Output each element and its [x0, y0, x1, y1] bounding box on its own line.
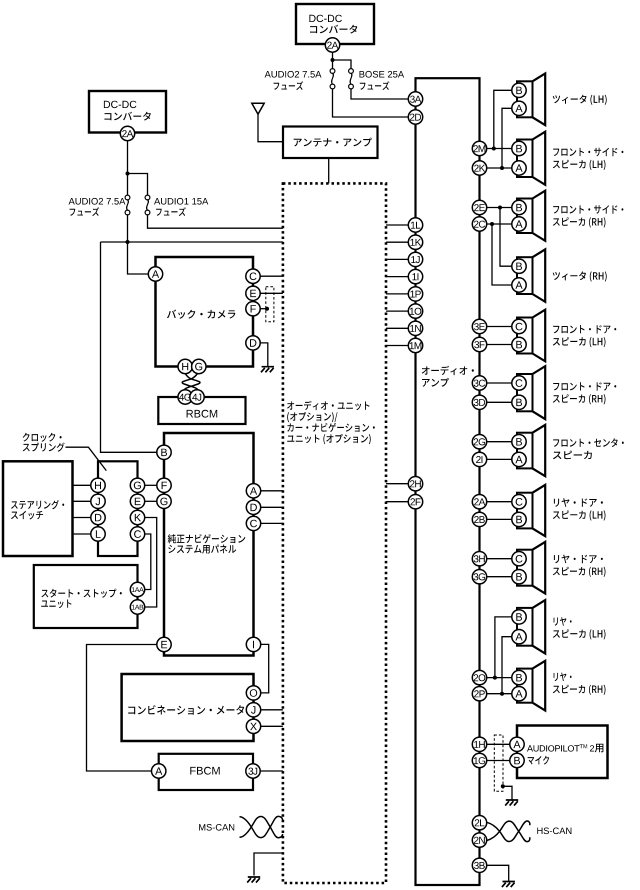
fuse AUDIO2 7.5A (top) — [330, 69, 335, 74]
start-stop unit box — [34, 565, 138, 628]
wire D to ground — [260, 343, 268, 367]
connector L (clock spring) — [91, 527, 105, 541]
clock spring label — [23, 433, 62, 442]
connector 1O (amp) — [408, 304, 422, 318]
wire steering switch to clock spring — [73, 484, 92, 486]
wire power rail horizontal — [101, 241, 283, 243]
connector F (back camera) — [246, 302, 260, 316]
speaker tweeter (LH) — [517, 81, 533, 117]
wire antenna amp to audio unit — [328, 158, 330, 183]
wire E to audio unit — [260, 292, 283, 294]
wire junction to BOSE fuse — [333, 60, 352, 69]
connector 2K (amp) — [472, 161, 486, 175]
wire clock C to 1AA — [145, 534, 151, 590]
genuine navigation system panel box — [164, 433, 254, 656]
connector 2C (amp) — [472, 217, 486, 231]
wire junction to AUDIO1 fuse — [128, 174, 148, 196]
connector 1P (amp) — [408, 287, 422, 301]
wire J to audio unit — [261, 709, 283, 711]
connector 1AA (start-stop) — [130, 582, 144, 596]
power box DC-DC converter (left) — [89, 91, 166, 133]
wire 2I to speaker — [487, 458, 513, 460]
speaker rear (LH) — [517, 608, 533, 646]
wire A to audio unit — [261, 490, 283, 492]
ground (back camera) — [261, 367, 274, 373]
wire audio unit to 1M — [386, 345, 409, 347]
wire 2G to speaker — [487, 441, 513, 443]
antenna — [252, 103, 264, 114]
connector 3F (amp) — [472, 337, 486, 351]
wire F to shield — [260, 308, 267, 310]
combination meter box — [122, 674, 254, 741]
shield (mic) — [494, 735, 503, 791]
connector 3A (amp) — [408, 92, 422, 106]
wire steering switch to clock spring — [73, 517, 92, 519]
connector 2I (amp) — [472, 452, 486, 466]
wire audio unit to 1K — [386, 241, 409, 243]
connector H (back camera) — [178, 359, 192, 373]
connector E (nav panel) — [157, 637, 171, 651]
connector 2L (amp) — [472, 816, 486, 830]
ground (3B) — [502, 882, 515, 888]
terminal C (speaker) — [512, 495, 526, 509]
speaker tweeter (RH) — [517, 257, 533, 294]
terminal B (speaker) — [512, 337, 526, 351]
twisted pair MS-CAN — [240, 816, 283, 837]
wire 3C to speaker — [487, 382, 513, 384]
junction left power — [126, 172, 130, 176]
connector E (clock spring) — [130, 494, 144, 508]
connector 1N (amp) — [408, 321, 422, 335]
terminal B (speaker) — [512, 141, 526, 155]
terminal B (tweeter LH) — [512, 83, 526, 97]
wire 3B to ground — [487, 865, 509, 881]
wire 2A to junction — [332, 52, 334, 69]
wire audio unit to 1O — [386, 310, 409, 312]
wire tweeter LH A tap — [502, 108, 512, 168]
connector 2O (amp) — [472, 670, 486, 684]
connector 3G (amp) — [472, 570, 486, 584]
connector 1M (amp) — [408, 338, 422, 352]
wire antenna to antenna amp — [258, 114, 283, 142]
terminal A (speaker) — [512, 161, 526, 175]
connector 2N (amp) — [472, 833, 486, 847]
connector 2F (amp) — [408, 495, 422, 509]
connector 1H (amp) — [472, 737, 486, 751]
connector 2A (amp) — [472, 495, 486, 509]
wire 2E to speaker — [487, 207, 513, 209]
speaker rear door (RH) — [517, 550, 533, 586]
connector A (nav panel) — [246, 484, 260, 498]
connector 3C (amp) — [472, 376, 486, 390]
terminal A (tweeter RH) — [512, 278, 526, 292]
terminal C (speaker) — [512, 552, 526, 566]
junction speaker tap — [493, 676, 497, 680]
wire power rail to back camera A — [128, 242, 149, 274]
junction F shield — [265, 307, 269, 311]
back camera box — [156, 257, 254, 367]
wire 2M to speaker — [487, 148, 513, 150]
wire audio unit to 1I — [386, 276, 409, 278]
connector 3B (amp) — [472, 858, 486, 872]
fuse AUDIO1 15A — [145, 195, 150, 200]
wire audio unit to 2F — [386, 501, 409, 503]
wire 2P to speaker — [487, 693, 513, 695]
connector K (clock spring) — [130, 510, 144, 524]
junction top power — [331, 58, 335, 62]
connector 2G (amp) — [472, 435, 486, 449]
connector 1K (amp) — [408, 235, 422, 249]
wire 3H to speaker — [487, 558, 513, 560]
connector 3E (amp) — [472, 319, 486, 333]
connector 1I (amp) — [408, 269, 422, 283]
wire power rail to nav panel B — [101, 242, 158, 452]
wire audio unit to ground (bottom left) — [254, 853, 283, 876]
ground (mic shield) — [505, 800, 518, 806]
wire BOSE fuse to 3A — [351, 89, 409, 99]
connector G (nav panel) — [157, 494, 171, 508]
connector 3H (amp) — [472, 552, 486, 566]
connector D (nav panel) — [246, 500, 260, 514]
connector 3J (FBCM) — [246, 764, 260, 778]
terminal B (mic) — [510, 753, 524, 767]
twisted pair camera-RBCM — [184, 374, 200, 393]
speaker front side (LH) — [517, 140, 533, 178]
wire 3J to audio unit — [260, 770, 283, 772]
fuse BOSE 25A — [349, 69, 354, 74]
connector 3D (amp) — [472, 395, 486, 409]
speaker rear door (LH) — [517, 493, 533, 529]
connector I (nav panel) — [246, 637, 260, 651]
FBCM box — [159, 754, 253, 790]
connector F (nav panel) — [157, 478, 171, 492]
wire clock E to nav G — [145, 500, 158, 502]
wire tweeter RH A tap — [492, 224, 512, 285]
wire 2C to speaker — [487, 223, 513, 225]
junction speaker tap — [490, 222, 494, 226]
terminal A (speaker) — [512, 452, 526, 466]
wire 1G to mic B — [487, 760, 511, 762]
connector B (nav panel) — [157, 445, 171, 459]
wire C to audio unit — [260, 275, 283, 277]
terminal A (rear LH) — [512, 630, 526, 644]
wire clock K to 1AB — [145, 518, 157, 608]
power box DC-DC converter (top) — [296, 4, 374, 44]
wire audio unit to 1P — [386, 293, 409, 295]
steering switch box — [3, 461, 73, 556]
connector G (back camera) — [192, 359, 206, 373]
wire X to audio unit — [261, 725, 283, 727]
twisted pair HS-CAN — [487, 821, 530, 842]
wire AUDIO2 fuse to power rail — [127, 215, 129, 242]
connector D (back camera) — [246, 336, 260, 350]
connector 2P (amp) — [472, 687, 486, 701]
connector A (back camera) — [148, 267, 162, 281]
terminal A (mic) — [510, 737, 524, 751]
junction speaker tap — [500, 692, 504, 696]
connector J (meter) — [246, 703, 260, 717]
wire 2O to speaker — [487, 677, 513, 679]
speaker front center — [517, 433, 533, 469]
connector 2A (top DC-DC) — [325, 38, 339, 52]
wire rear speaker LH B tap — [495, 617, 512, 678]
terminal B (tweeter RH) — [512, 259, 526, 273]
connector A (FBCM) — [152, 764, 166, 778]
wire 1H to mic A — [487, 743, 511, 745]
connector 1L (amp) — [408, 218, 422, 232]
wire C to audio unit — [261, 522, 283, 524]
wire 3E to speaker — [487, 326, 513, 328]
AUDIOPILOT 2 microphone box — [517, 726, 608, 779]
connector 2B (amp) — [472, 512, 486, 526]
connector D (clock spring) — [91, 510, 105, 524]
terminal A (tweeter LH) — [512, 101, 526, 115]
terminal B (speaker) — [512, 200, 526, 214]
terminal A (speaker) — [512, 687, 526, 701]
clock spring pointer line — [66, 447, 107, 470]
wire 2B to speaker — [487, 518, 513, 520]
connector J (clock spring) — [91, 494, 105, 508]
wire D to audio unit — [261, 506, 283, 508]
connector 1G (amp) — [472, 753, 486, 767]
terminal A (speaker) — [512, 217, 526, 231]
speaker front door (RH) — [517, 374, 533, 411]
junction power rail — [126, 240, 130, 244]
wire 2K to speaker — [487, 167, 513, 169]
terminal B (speaker) — [512, 435, 526, 449]
wire nav I to meter O — [261, 644, 269, 693]
junction speaker tap — [500, 166, 504, 170]
terminal C (speaker) — [512, 319, 526, 333]
speaker front door (LH) — [517, 318, 533, 354]
wire 3D to speaker — [487, 401, 513, 403]
junction speaker tap — [498, 206, 502, 210]
connector 4G (RBCM) — [178, 390, 192, 404]
wire audio unit to 1N — [386, 327, 409, 329]
wire mic shield to ground — [503, 786, 512, 799]
connector O (meter) — [246, 686, 260, 700]
wire audio unit to 1J — [386, 258, 409, 260]
connector X (meter) — [246, 719, 260, 733]
wire audio unit to 1L — [386, 224, 409, 226]
wire AUDIO2 fuse to 2D — [333, 89, 409, 117]
wire nav E to FBCM A — [87, 645, 158, 772]
junction mic shield — [501, 784, 505, 788]
shield (back camera video) — [266, 287, 274, 322]
wire 3F to speaker — [487, 344, 513, 346]
terminal B (speaker) — [512, 670, 526, 684]
wire 2A down — [127, 141, 129, 196]
ground (audio unit) — [247, 877, 260, 883]
antenna amplifier box — [283, 127, 378, 159]
wire steering switch to clock spring — [73, 533, 92, 535]
connector 2D (amp) — [408, 110, 422, 124]
connector 2A (left DC-DC) — [120, 126, 134, 140]
connector 1J (amp) — [408, 252, 422, 266]
connector C (clock spring) — [130, 527, 144, 541]
terminal B (speaker) — [512, 512, 526, 526]
wire clock G to nav F — [145, 484, 158, 486]
connector 1AB (start-stop) — [130, 600, 144, 614]
connector H (clock spring) — [91, 478, 105, 492]
wire AUDIO1 fuse to audio unit — [148, 215, 283, 228]
speaker front side (RH) — [517, 199, 533, 234]
connector 2H (amp) — [408, 477, 422, 491]
connector 2M (amp) — [472, 141, 486, 155]
wire tweeter RH B tap — [500, 208, 512, 267]
connector G (clock spring) — [130, 478, 144, 492]
wire 3G to speaker — [487, 576, 513, 578]
terminal B (speaker) — [512, 395, 526, 409]
wire rear speaker LH A tap — [502, 637, 512, 694]
speaker rear (RH) — [517, 669, 533, 703]
audio amplifier box — [416, 78, 480, 885]
terminal C (speaker) — [512, 376, 526, 390]
fuse AUDIO2 7.5A (left) — [125, 195, 130, 200]
connector E (back camera) — [246, 286, 260, 300]
terminal B (rear LH) — [512, 610, 526, 624]
wire steering switch to clock spring — [73, 500, 92, 502]
audio unit / car navigation unit (dashed box) — [283, 183, 386, 883]
junction speaker tap — [492, 147, 496, 151]
terminal B (speaker) — [512, 570, 526, 584]
wire 2A to speaker — [487, 501, 513, 503]
connector C (nav panel) — [246, 516, 260, 530]
wire audio unit to 2H — [386, 483, 409, 485]
connector C (back camera) — [246, 269, 260, 283]
connector 4J (RBCM) — [190, 390, 204, 404]
RBCM box — [158, 397, 245, 424]
clock spring box — [98, 461, 138, 556]
wire tweeter LH B tap — [494, 90, 512, 148]
connector 2E (amp) — [472, 200, 486, 214]
